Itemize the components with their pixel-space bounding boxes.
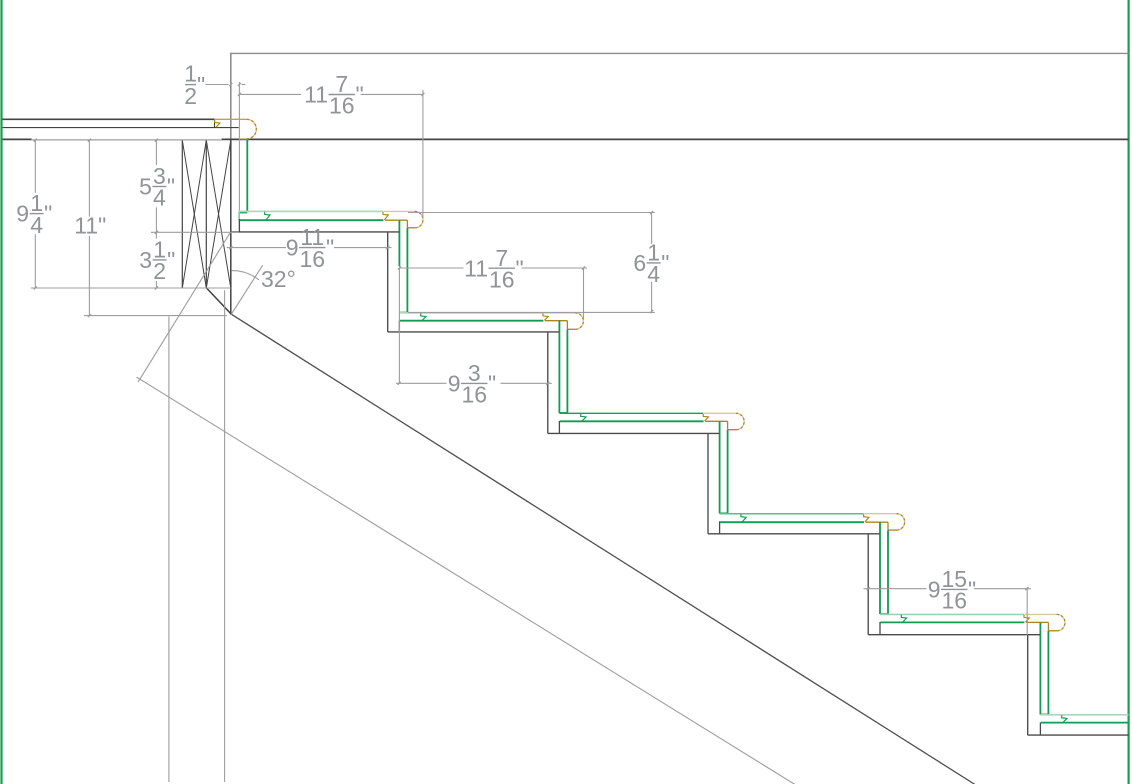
dimension 9 3/16 — [396, 266, 552, 408]
structure stub under tread 6 — [879, 622, 881, 635]
svg-text:16: 16 — [941, 588, 967, 614]
svg-text:16: 16 — [329, 93, 355, 119]
tread 2 right break mark — [383, 212, 388, 220]
dimension 3 1/2 — [31, 231, 231, 290]
svg-text:": " — [356, 82, 364, 108]
structure line under tread 4 — [548, 432, 719, 434]
floor nosing bullnose — [214, 119, 256, 139]
riser 6 back line — [1039, 622, 1041, 714]
floor top line — [3, 118, 215, 120]
structure stub under tread 2 — [238, 219, 240, 232]
floor bottom line — [3, 138, 1129, 140]
sheet border left — [0, 0, 2, 784]
tread 6 nosing — [1025, 614, 1065, 630]
tread 3 nosing — [544, 313, 584, 329]
tread 2 top surface line — [239, 211, 383, 220]
stringer end perpendicular line — [138, 232, 231, 382]
svg-text:16: 16 — [299, 246, 325, 272]
riser 1 front line — [240, 140, 248, 213]
tread 5 top surface line — [720, 513, 864, 515]
svg-text:6: 6 — [633, 250, 646, 276]
svg-text:32°: 32° — [261, 266, 296, 292]
floor mid line — [3, 119, 239, 127]
svg-text:9: 9 — [286, 235, 299, 261]
riser 3 back line — [558, 321, 560, 413]
svg-text:": " — [661, 250, 669, 276]
structure line under tread 6 — [868, 634, 1040, 636]
structure stub under tread 4 — [558, 421, 560, 434]
dimension 9 1/4 — [16, 139, 222, 290]
structure notch vertical 6 — [1027, 635, 1029, 735]
structure line under tread 7 — [1028, 734, 1129, 736]
svg-text:": " — [516, 255, 524, 281]
dimension 11 7/16 top — [238, 71, 425, 218]
svg-text:16: 16 — [461, 382, 487, 408]
svg-text:9: 9 — [928, 577, 941, 603]
svg-text:2: 2 — [153, 258, 166, 284]
riser 1 back line — [238, 82, 240, 232]
rim joist middle vertical — [205, 140, 207, 288]
svg-text:9: 9 — [448, 371, 461, 397]
tread 3 left break mark — [421, 313, 426, 320]
svg-text:16: 16 — [489, 266, 515, 292]
tread 4 right break mark — [703, 414, 708, 421]
tread 6 wear surface line — [881, 621, 1025, 623]
structure line under tread 3 — [388, 331, 559, 333]
riser 5 back line — [879, 522, 881, 614]
structure notch vertical 5 — [867, 534, 869, 635]
structure notch vertical 3 — [547, 332, 549, 434]
cross brace X left cell — [182, 140, 206, 288]
tread 7 left break mark — [1062, 715, 1067, 722]
stringer heel diagonal — [207, 288, 232, 314]
svg-text:11": 11" — [74, 213, 106, 239]
tread 7 top surface line — [1040, 714, 1128, 716]
structure notch vertical 4 — [707, 433, 709, 533]
tread 7 wear surface line — [1041, 722, 1129, 724]
svg-text:4: 4 — [30, 212, 43, 238]
dimension 6 1/4 — [408, 211, 670, 313]
svg-text:": " — [44, 201, 52, 227]
svg-text:": " — [197, 72, 205, 98]
dimension 9 11/16 — [227, 224, 392, 272]
svg-text:": " — [326, 235, 334, 261]
svg-text:3: 3 — [139, 247, 152, 273]
dimension 5 3/4 — [139, 139, 239, 234]
svg-text:11: 11 — [464, 255, 488, 281]
floor nosing break mark — [215, 120, 220, 127]
structure stub under tread 5 — [719, 521, 721, 534]
tread 5 right break mark — [864, 514, 869, 522]
svg-text:11: 11 — [304, 82, 328, 108]
riser 2 back line — [398, 220, 400, 266]
riser 4 back line — [719, 421, 721, 513]
tread 4 top surface line — [559, 412, 703, 414]
tread 2 nosing — [384, 211, 423, 227]
tread 5 wear surface line — [720, 521, 864, 523]
riser 6 front line — [1040, 631, 1048, 715]
riser 4 front line — [720, 430, 728, 514]
tread 6 right break mark — [1024, 615, 1029, 622]
structure line under tread 2 — [231, 231, 400, 233]
sheet border right — [1127, 0, 1129, 784]
stringer bottom edge diagonal — [137, 377, 795, 784]
tread 3 top surface line — [399, 312, 543, 314]
structure notch vertical 2 — [387, 232, 389, 332]
riser 3 front line — [559, 330, 567, 414]
svg-text:4: 4 — [647, 261, 660, 287]
svg-text:9: 9 — [16, 201, 29, 227]
svg-text:": " — [167, 247, 175, 273]
svg-text:": " — [488, 371, 496, 397]
svg-text:": " — [167, 174, 175, 200]
tread 2 left break mark — [265, 212, 270, 220]
tread 4 wear surface line — [560, 420, 704, 422]
angle dimension 32 degrees — [231, 265, 295, 314]
tread 5 nosing — [864, 514, 904, 530]
dimension half inch — [184, 60, 245, 109]
wall top line — [231, 52, 1129, 54]
svg-text:": " — [968, 577, 976, 603]
wall corner vertical — [230, 53, 232, 315]
stringer top edge diagonal — [231, 314, 975, 784]
dimension 11 vertical — [74, 139, 227, 318]
tread 4 nosing — [704, 413, 744, 429]
riser 2 front line — [399, 228, 407, 313]
cross brace X right cell — [206, 140, 231, 288]
tread 3 wear surface line — [400, 320, 544, 322]
tread 6 left break mark — [901, 615, 906, 622]
dimension 9 15/16 — [864, 566, 1032, 635]
tread 2 wear surface line — [240, 219, 384, 221]
structure stub under tread 3 — [398, 321, 400, 332]
tread 6 top surface line — [880, 613, 1024, 615]
tread 5 left break mark — [741, 514, 746, 522]
riser 5 front line — [880, 530, 888, 614]
structure line under tread 5 — [708, 533, 880, 535]
construction vertical line B — [224, 290, 226, 782]
tread 3 right break mark — [543, 313, 548, 320]
svg-text:4: 4 — [153, 185, 166, 211]
svg-text:2: 2 — [184, 83, 197, 109]
dimension 11 7/16 second — [398, 245, 587, 320]
tread 4 left break mark — [581, 414, 586, 421]
construction vertical line A — [168, 316, 170, 782]
rim joist left vertical — [181, 140, 183, 288]
structure stub under tread 7 — [1039, 722, 1041, 735]
svg-text:5: 5 — [139, 174, 152, 200]
